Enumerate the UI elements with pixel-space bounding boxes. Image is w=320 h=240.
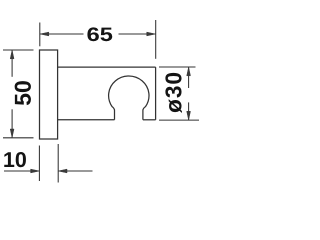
holder body right edge (155, 67, 157, 120)
dim 65 extension line left (39, 23, 41, 47)
dim o30 extension line top (159, 66, 196, 68)
dim 50 line upper part (11, 50, 13, 77)
dim 50 line lower part (11, 109, 13, 138)
holder body bottom edge right segment (143, 119, 156, 121)
dim o30 extension line bottom (159, 119, 199, 121)
dim o30 line lower part (188, 102, 190, 120)
arrow o30 up (187, 67, 191, 76)
dim 65 extension line right (155, 20, 157, 59)
holder body top edge (58, 66, 156, 68)
arrow 50 down (10, 129, 14, 138)
arrow 10 right (31, 169, 40, 173)
arrow 50 up (10, 50, 14, 59)
label 50 (15, 81, 31, 105)
label o30 (165, 73, 182, 113)
dim 50 extension line bottom (3, 137, 34, 139)
label 10 (4, 152, 26, 167)
wall plate side view rectangle (40, 50, 58, 139)
arrow 65 left (40, 32, 49, 36)
holder body bottom edge left segment (58, 119, 115, 121)
dim 10 extension line right (57, 144, 59, 183)
label 65side (87, 27, 112, 41)
hook keyhole cutout (109, 76, 149, 120)
dim 50 extension line top (3, 49, 34, 51)
dim 10 line right part (58, 170, 92, 172)
arrow 10 left (58, 169, 67, 173)
dim 65 line right part (119, 33, 156, 35)
arrow o30 down (187, 111, 191, 120)
dim o30 line upper part (188, 67, 190, 88)
dim 65 line left part (40, 33, 84, 35)
dim 10 extension line left (38, 146, 40, 182)
dim 10 line left part (4, 170, 39, 172)
arrow 65 right (147, 32, 156, 36)
